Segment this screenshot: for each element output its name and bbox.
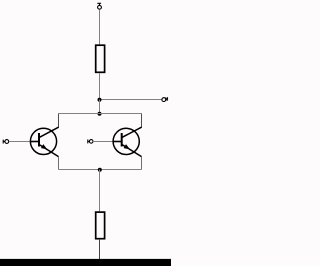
wire R2 to ground bus — [99, 239, 101, 260]
wire Q1 emitter stub — [58, 157, 60, 170]
wire R1 to node A — [99, 73, 101, 100]
transistor Q2 (right NPN) — [113, 127, 142, 156]
wire P4 to Q2 base — [93, 141, 113, 143]
terminal P4 (right input pin) — [88, 140, 93, 144]
node C junction dot — [98, 168, 102, 172]
wire node A to output terminal — [100, 99, 163, 101]
terminal P2 (output pin, right) — [162, 97, 168, 101]
wire top terminal to R1 — [99, 9, 101, 44]
transistor Q1 (left NPN) — [30, 127, 58, 156]
node B junction dot — [98, 112, 102, 116]
wire node A to node B — [99, 100, 101, 114]
terminal P3 (left input pin) — [3, 140, 9, 144]
terminal P1 (top supply pin) — [97, 3, 101, 9]
resistor R2 — [96, 212, 105, 239]
wire Q2 collector stub — [141, 114, 143, 129]
ground bus bar — [0, 259, 171, 266]
node A junction dot — [98, 98, 102, 102]
wire emitter rail (bottom) — [59, 169, 142, 171]
wire Q2 emitter stub — [141, 157, 143, 170]
wire Q1 collector stub — [58, 114, 60, 129]
wire P3 to Q1 base — [9, 141, 31, 143]
wire node C to R2 — [99, 170, 101, 213]
resistor R1 — [96, 45, 105, 72]
wire collector rail (top) — [59, 113, 142, 115]
